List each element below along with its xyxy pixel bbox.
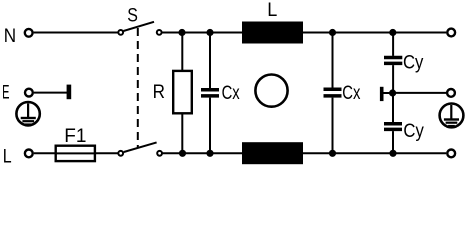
connector bar E right — [380, 87, 384, 101]
wire top rail choke to right terminal — [303, 32, 446, 34]
junction top of Cx1 — [206, 29, 213, 36]
wire N terminal to switch — [34, 32, 118, 34]
terminal L out — [447, 150, 455, 158]
junction top of R — [178, 29, 185, 36]
inductor L core circle — [255, 75, 287, 107]
wire bottom rail switch to choke — [163, 152, 243, 154]
svg-text:N: N — [4, 25, 16, 46]
junction bottom of Cx1 — [206, 150, 213, 157]
svg-text:Cy: Cy — [403, 120, 423, 141]
terminal E — [25, 89, 33, 97]
wire fuse to switch lower pole — [96, 152, 118, 154]
svg-text:R: R — [153, 81, 165, 102]
svg-text:Cx: Cx — [222, 82, 241, 103]
ground earth symbol left — [16, 102, 39, 125]
switch S lower pole — [118, 142, 162, 155]
svg-text:Cy: Cy — [403, 51, 423, 72]
wire L terminal to fuse — [34, 152, 55, 154]
junction bottom of Cx2 — [329, 150, 336, 157]
svg-text:Cx: Cx — [342, 82, 361, 103]
svg-text:F1: F1 — [64, 126, 86, 147]
terminal N out — [447, 29, 455, 37]
junction top of Cy1 — [389, 29, 396, 36]
junction top of Cx2 — [329, 29, 336, 36]
terminal E out — [447, 89, 455, 97]
junction bottom of R — [179, 150, 186, 157]
wire connector bar to junction — [384, 92, 393, 94]
wire bottom rail choke to right terminal — [303, 152, 446, 154]
junction E mid Cy — [389, 89, 396, 96]
ground earth symbol right — [440, 104, 464, 128]
capacitor Cy2 — [384, 93, 402, 153]
switch S upper pole — [118, 22, 161, 35]
capacitor Cy1 — [384, 33, 402, 94]
fuse F1 — [55, 146, 97, 161]
inductor L winding top — [242, 22, 303, 44]
wire top rail switch to choke — [162, 32, 242, 34]
inductor L winding bottom — [242, 142, 303, 164]
connector bar E left — [67, 85, 72, 100]
junction bottom of Cy2 — [389, 150, 396, 157]
terminal L — [25, 150, 33, 158]
wire junction to E terminal right — [393, 92, 447, 94]
svg-text:S: S — [127, 4, 138, 26]
switch S link (dashed) — [137, 28, 139, 149]
svg-text:E: E — [2, 82, 9, 103]
svg-text:L: L — [3, 145, 12, 167]
resistor R — [173, 33, 192, 154]
terminal N — [25, 29, 33, 37]
wire E terminal to connector bar — [34, 92, 67, 94]
svg-text:L: L — [267, 0, 277, 20]
capacitor Cx1 — [201, 33, 219, 154]
capacitor Cx2 — [324, 33, 342, 154]
